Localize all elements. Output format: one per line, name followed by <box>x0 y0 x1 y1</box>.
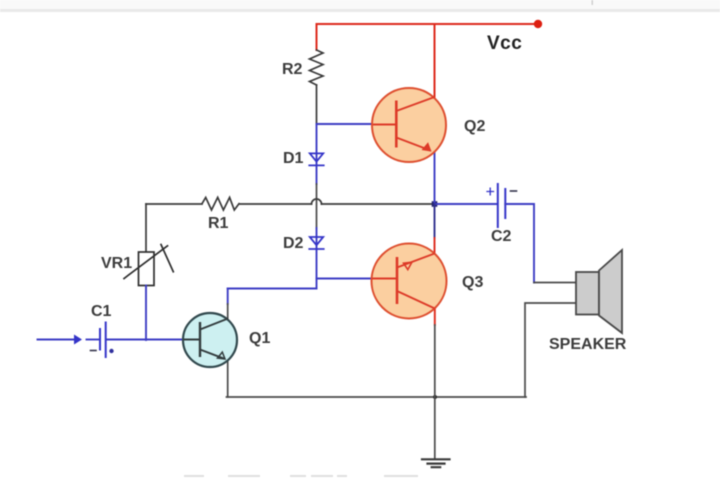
C1 minus mark <box>91 350 97 352</box>
wire Vcc rail (red) <box>317 23 538 25</box>
svg-text:Vcc: Vcc <box>487 33 522 54</box>
svg-text:C1: C1 <box>91 303 112 320</box>
svg-text:D1: D1 <box>283 150 304 167</box>
wire Q3 collector lead (red then dark) <box>434 309 436 326</box>
C2 minus mark <box>511 190 517 192</box>
node rail crossing <box>433 395 437 399</box>
wire corner to speaker top <box>534 282 576 284</box>
wire node to Q3 (navy then red) <box>434 204 436 238</box>
resistor R2 <box>310 50 324 85</box>
potentiometer VR1 body <box>139 252 155 286</box>
potentiometer VR1 arrow <box>124 246 168 279</box>
wire vertical through hop <box>316 184 318 228</box>
diode D2 <box>309 237 323 249</box>
node Vcc terminal dot <box>534 20 542 28</box>
wire input arrow <box>38 339 75 341</box>
wire C1 left lead <box>87 339 99 341</box>
wire node to Q1 collector (blue) <box>228 288 317 290</box>
wire speaker bottom lead <box>525 303 576 397</box>
transistor Q1 <box>183 313 237 367</box>
wire to D1 (blue) <box>316 124 318 184</box>
wire R2 top lead (red) <box>316 24 318 50</box>
wire C1 right lead to Q1 base (blue) <box>107 339 184 341</box>
wire hop to output node <box>322 203 435 205</box>
svg-text:R2: R2 <box>282 61 303 78</box>
wire Q3 base (blue) <box>317 278 373 280</box>
svg-text:Q3: Q3 <box>462 274 483 291</box>
ground <box>422 459 450 467</box>
capacitor C2 <box>497 184 499 227</box>
transistor Q3 <box>372 244 447 319</box>
wire VR1 bottom lead (blue) <box>145 286 147 341</box>
svg-text:D2: D2 <box>283 235 304 252</box>
wire C2 right lead to corner (blue) <box>505 204 534 283</box>
wire Vcc drop to Q2 collector <box>434 24 436 98</box>
wire to D2 (blue) <box>316 228 318 289</box>
wire Q1 emitter drop <box>227 359 229 397</box>
wire hop over diode string <box>312 199 322 204</box>
svg-text:C2: C2 <box>491 228 512 245</box>
bottom faint marks <box>184 475 418 477</box>
C2 plus mark <box>487 188 494 195</box>
svg-text:Q1: Q1 <box>249 330 270 347</box>
svg-text:SPEAKER: SPEAKER <box>549 336 627 353</box>
top band <box>0 0 720 9</box>
wire Q2 base (blue) <box>317 123 374 125</box>
wire Q2 emitter to node (blue) <box>434 153 436 205</box>
svg-text:Q2: Q2 <box>464 118 485 135</box>
speaker <box>576 250 622 333</box>
wire R2 bottom lead <box>316 85 318 124</box>
wire node to C2 (blue) <box>435 203 497 205</box>
wire R1 to hop <box>240 203 312 205</box>
transistor Q2 <box>372 88 446 162</box>
C1 plus dot <box>109 349 113 353</box>
svg-text:VR1: VR1 <box>101 255 132 272</box>
tiny tick in top band <box>592 0 594 5</box>
diode D1 <box>309 153 323 165</box>
capacitor C1 <box>99 329 101 350</box>
node output junction <box>432 201 438 207</box>
wire R1 left lead <box>146 203 202 205</box>
svg-text:R1: R1 <box>208 215 229 232</box>
wire bottom rail <box>227 396 527 398</box>
wire Q1 collector drop <box>227 289 229 305</box>
wire VR1 top lead <box>145 204 147 252</box>
resistor R1 <box>202 197 239 210</box>
